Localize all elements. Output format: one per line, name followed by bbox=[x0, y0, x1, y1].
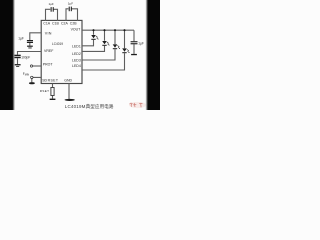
svg-text:VIN: VIN bbox=[45, 32, 52, 36]
svg-text:LC4019: LC4019 bbox=[52, 42, 63, 46]
svg-text:100pF: 100pF bbox=[21, 55, 30, 59]
svg-text:LC4019M典型应用电路: LC4019M典型应用电路 bbox=[65, 103, 114, 110]
svg-text:LED2: LED2 bbox=[72, 52, 81, 56]
svg-text:C2B: C2B bbox=[70, 21, 77, 25]
svg-text:C1B: C1B bbox=[52, 21, 59, 25]
svg-text:1µF: 1µF bbox=[18, 37, 24, 41]
svg-text:C2A: C2A bbox=[61, 21, 68, 25]
svg-text:LED4: LED4 bbox=[72, 64, 81, 68]
svg-text:GND: GND bbox=[64, 78, 72, 82]
svg-text:LED3: LED3 bbox=[72, 58, 81, 62]
svg-text:RSET: RSET bbox=[40, 89, 50, 93]
svg-text:LED1: LED1 bbox=[72, 44, 81, 48]
svg-text:FMIN: FMIN bbox=[23, 72, 30, 77]
svg-text:PROT: PROT bbox=[43, 62, 54, 66]
svg-text:1µF: 1µF bbox=[68, 2, 73, 6]
svg-text:1µF: 1µF bbox=[49, 2, 54, 6]
svg-text:C1A: C1A bbox=[43, 21, 50, 25]
svg-text:RSET: RSET bbox=[48, 78, 59, 82]
svg-text:VOUT: VOUT bbox=[71, 27, 82, 31]
svg-text:1µF: 1µF bbox=[138, 42, 144, 46]
svg-text:VREF: VREF bbox=[44, 49, 53, 53]
